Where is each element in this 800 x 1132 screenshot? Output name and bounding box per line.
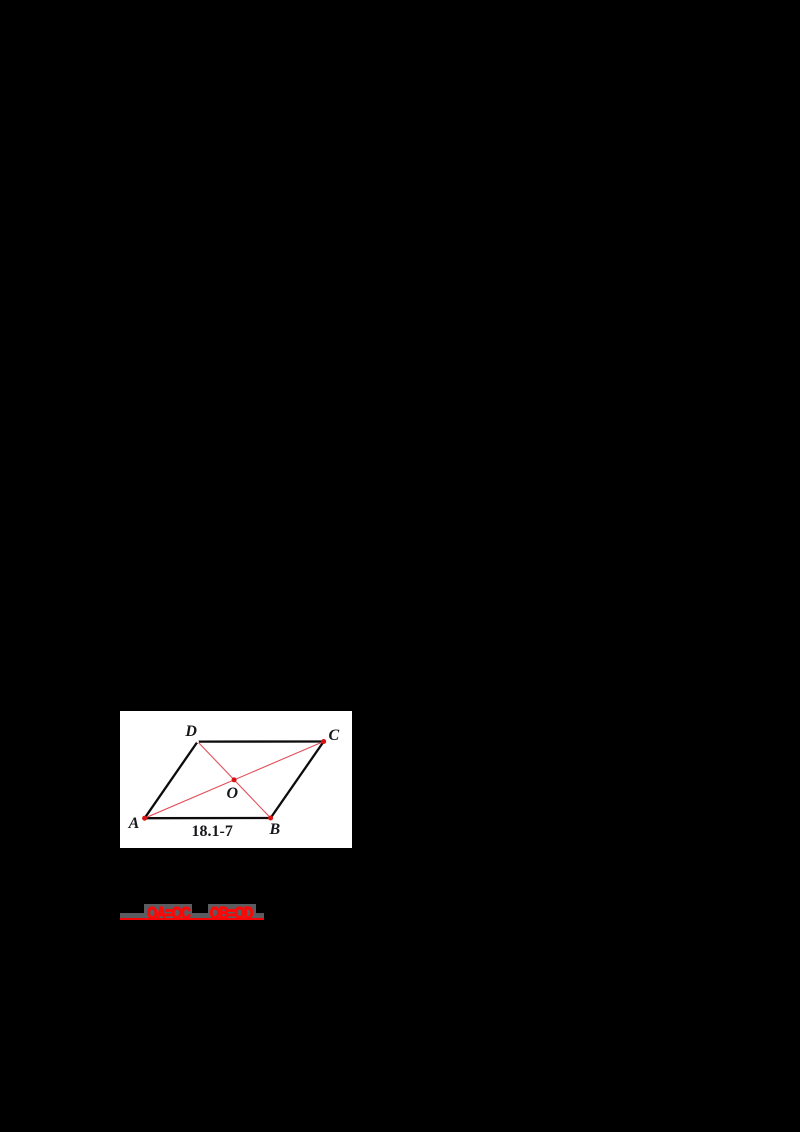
side BC: [270, 742, 323, 818]
svg-text:O: O: [226, 785, 238, 802]
vertex dot A: [142, 816, 147, 821]
vertex dot D (white): [196, 741, 199, 744]
svg-text:18.1-7: 18.1-7: [191, 823, 232, 840]
side DA: [144, 742, 197, 819]
diagonal BD: [197, 742, 270, 818]
gray comma mark: [257, 913, 262, 916]
svg-text:D: D: [184, 723, 197, 740]
node O dot: [231, 778, 236, 783]
blank underscore bar (gray): [120, 913, 265, 918]
svg-text:C: C: [328, 727, 339, 744]
red answer text 2: OB=OD: [210, 907, 252, 923]
figure panel (white box): [120, 711, 352, 848]
diagonal AC: [144, 742, 323, 819]
vertex dot C: [321, 739, 326, 744]
red underline: [120, 918, 265, 920]
vertex dot B: [268, 816, 273, 821]
highlight patch 1: [144, 904, 192, 918]
svg-text:A: A: [127, 815, 139, 832]
red answer text 1: OA=OC: [147, 907, 191, 923]
side AB: [144, 817, 270, 819]
svg-text:B: B: [268, 821, 280, 838]
side CD: [197, 741, 323, 743]
highlight patch 2: [208, 904, 256, 918]
